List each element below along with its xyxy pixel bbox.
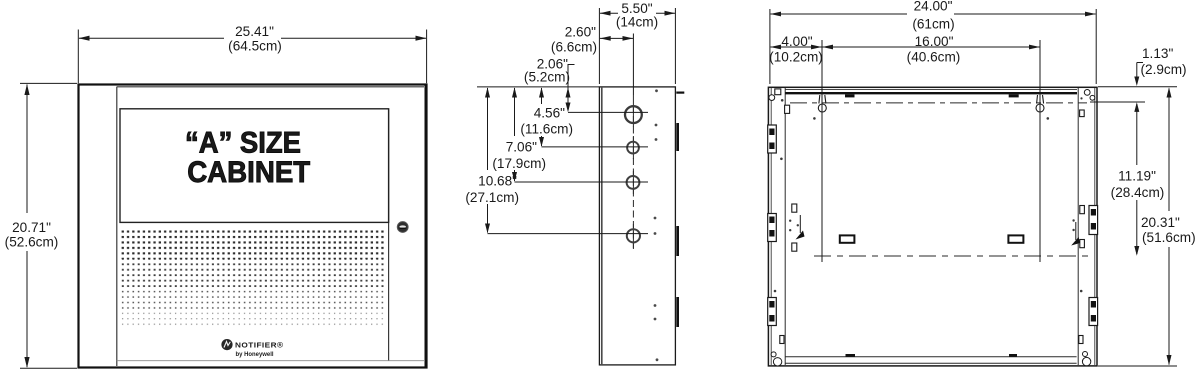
front door top edge	[117, 86, 424, 88]
dimension 11.19	[1136, 104, 1138, 165]
front door bottom edge	[117, 360, 424, 362]
corner holes bottom-left	[771, 352, 776, 357]
svg-text:CABINET: CABINET	[187, 156, 310, 189]
rail hole right upper	[1080, 110, 1085, 117]
side view hinge bar middle	[676, 226, 679, 256]
front door latch-side edge	[388, 109, 390, 362]
keyhole extension line right	[1039, 40, 1041, 262]
side view top-right tick	[676, 92, 684, 94]
svg-text:(5.2cm): (5.2cm)	[524, 70, 570, 85]
knockout centerline vertical	[632, 34, 634, 96]
svg-text:1.13": 1.13"	[1142, 46, 1173, 61]
center slot left	[840, 235, 855, 242]
mounting dash line middle	[814, 255, 1090, 257]
dimension 1.13	[1137, 63, 1143, 81]
door lock	[397, 222, 408, 233]
svg-text:25.41": 25.41"	[235, 24, 274, 39]
dimension 25.41 arrows	[79, 36, 90, 41]
ground stud left	[796, 215, 805, 240]
hinge right bottom	[1089, 298, 1098, 326]
svg-text:(17.9cm): (17.9cm)	[492, 156, 546, 171]
perforated vent dot grid	[121, 229, 386, 259]
back bottom bar	[785, 356, 1076, 358]
dimension 7.06	[514, 88, 516, 136]
svg-text:“A” SIZE: “A” SIZE	[185, 126, 301, 159]
hinge left bottom	[768, 298, 777, 326]
svg-text:(6.6cm): (6.6cm)	[551, 39, 597, 54]
svg-text:16.00": 16.00"	[915, 34, 954, 49]
svg-text:(11.6cm): (11.6cm)	[520, 122, 573, 137]
knockout leader KO1	[568, 111, 648, 113]
corner holes top-right	[1084, 90, 1090, 96]
knockout KO3	[627, 176, 640, 189]
side top reference line	[477, 86, 599, 88]
svg-text:20.71": 20.71"	[12, 220, 51, 235]
keyhole slot left	[818, 95, 826, 112]
rail hole right lower	[1079, 336, 1083, 344]
rail hole left mid2	[792, 243, 797, 251]
svg-text:NOTIFIER®: NOTIFIER®	[235, 341, 284, 350]
back top bar	[785, 89, 1077, 91]
svg-text:10.68": 10.68"	[478, 174, 517, 189]
rail hole right mid1	[1080, 206, 1085, 214]
svg-text:(61cm): (61cm)	[912, 17, 954, 32]
front view cabinet outline	[79, 85, 427, 368]
back bottom bar tab right	[1009, 354, 1017, 357]
svg-text:20.31": 20.31"	[1141, 215, 1180, 230]
back view cabinet outline	[768, 87, 1097, 366]
knockout KO2	[627, 142, 639, 154]
NOTIFIER logo mark	[221, 339, 232, 350]
label window frame	[120, 109, 389, 223]
knockout KO1	[625, 106, 642, 123]
side view small holes	[654, 89, 659, 361]
back right rail	[1077, 88, 1079, 365]
back bottom bar tab left	[846, 354, 856, 357]
knockout leader KO4	[488, 233, 649, 235]
knockout KO4	[627, 229, 640, 242]
rail hole left upper	[785, 105, 790, 113]
dimension 4.00	[771, 46, 822, 48]
dimension 4.56	[541, 88, 543, 104]
svg-text:11.19": 11.19"	[1118, 169, 1156, 184]
dimension 20.71 height: extension lines	[20, 83, 77, 368]
keyhole slot right	[1036, 95, 1044, 112]
back top bar tab right	[1009, 94, 1019, 97]
svg-text:4.00": 4.00"	[781, 34, 812, 49]
center slot right	[1008, 235, 1023, 242]
rail hole left mid1	[792, 204, 797, 212]
knockout leader KO2	[542, 146, 649, 148]
dimension 25.41 width: extension lines	[78, 30, 426, 84]
svg-text:(27.1cm): (27.1cm)	[465, 190, 519, 205]
svg-text:(64.5cm): (64.5cm)	[228, 39, 282, 54]
svg-text:(2.9cm): (2.9cm)	[1141, 62, 1187, 77]
front door hinge-side edge	[116, 87, 118, 366]
dimension 20.71 arrows	[24, 84, 29, 95]
hinge right middle	[1089, 206, 1098, 235]
corner hole top-left square	[775, 89, 781, 95]
svg-text:(51.6cm): (51.6cm)	[1142, 230, 1196, 245]
dimension 10.68	[487, 88, 489, 170]
svg-text:(52.6cm): (52.6cm)	[5, 234, 59, 249]
mounting dash line top	[790, 102, 1087, 104]
svg-text:(14cm): (14cm)	[616, 15, 658, 30]
svg-text:(28.4cm): (28.4cm)	[1111, 185, 1165, 200]
back top bar tab left	[845, 94, 855, 97]
svg-text:by Honeywell: by Honeywell	[236, 351, 274, 358]
ground stud right	[1071, 222, 1080, 246]
knockout leader KO3	[515, 181, 649, 183]
dimension 20.31	[1168, 89, 1170, 212]
svg-text:24.00": 24.00"	[914, 0, 953, 14]
rail hole left lower	[780, 336, 784, 344]
dimension 16.00	[823, 46, 1040, 48]
dimension 2.60	[600, 37, 633, 39]
dash level extension right	[1090, 101, 1145, 103]
side view cabinet outline	[599, 87, 675, 365]
back view inner edge lines	[771, 88, 1095, 365]
corner holes bottom-right	[1083, 352, 1088, 357]
rail dots	[774, 97, 1083, 292]
side view door edge double line	[601, 87, 603, 365]
side view hinge bar top	[676, 123, 679, 151]
svg-text:7.06": 7.06"	[506, 140, 537, 155]
back left rail	[784, 88, 786, 365]
corner hole top-left circle	[769, 95, 775, 101]
svg-text:2.60": 2.60"	[565, 25, 596, 40]
hinge left middle	[768, 214, 777, 242]
keyhole extension line left	[821, 40, 823, 262]
bottom edge extension right	[1098, 365, 1177, 367]
top edge extension right	[1098, 86, 1177, 88]
rail hole right mid2	[1080, 240, 1085, 248]
svg-text:(10.2cm): (10.2cm)	[769, 49, 823, 64]
dimension 24.00	[770, 9, 1096, 84]
svg-text:(40.6cm): (40.6cm)	[907, 49, 961, 64]
dimension 5.50 depth	[599, 8, 675, 84]
dimension 2.06	[567, 64, 569, 110]
svg-text:4.56": 4.56"	[534, 106, 565, 121]
hinge left top	[768, 125, 777, 153]
side view hinge bar bottom	[676, 297, 679, 327]
